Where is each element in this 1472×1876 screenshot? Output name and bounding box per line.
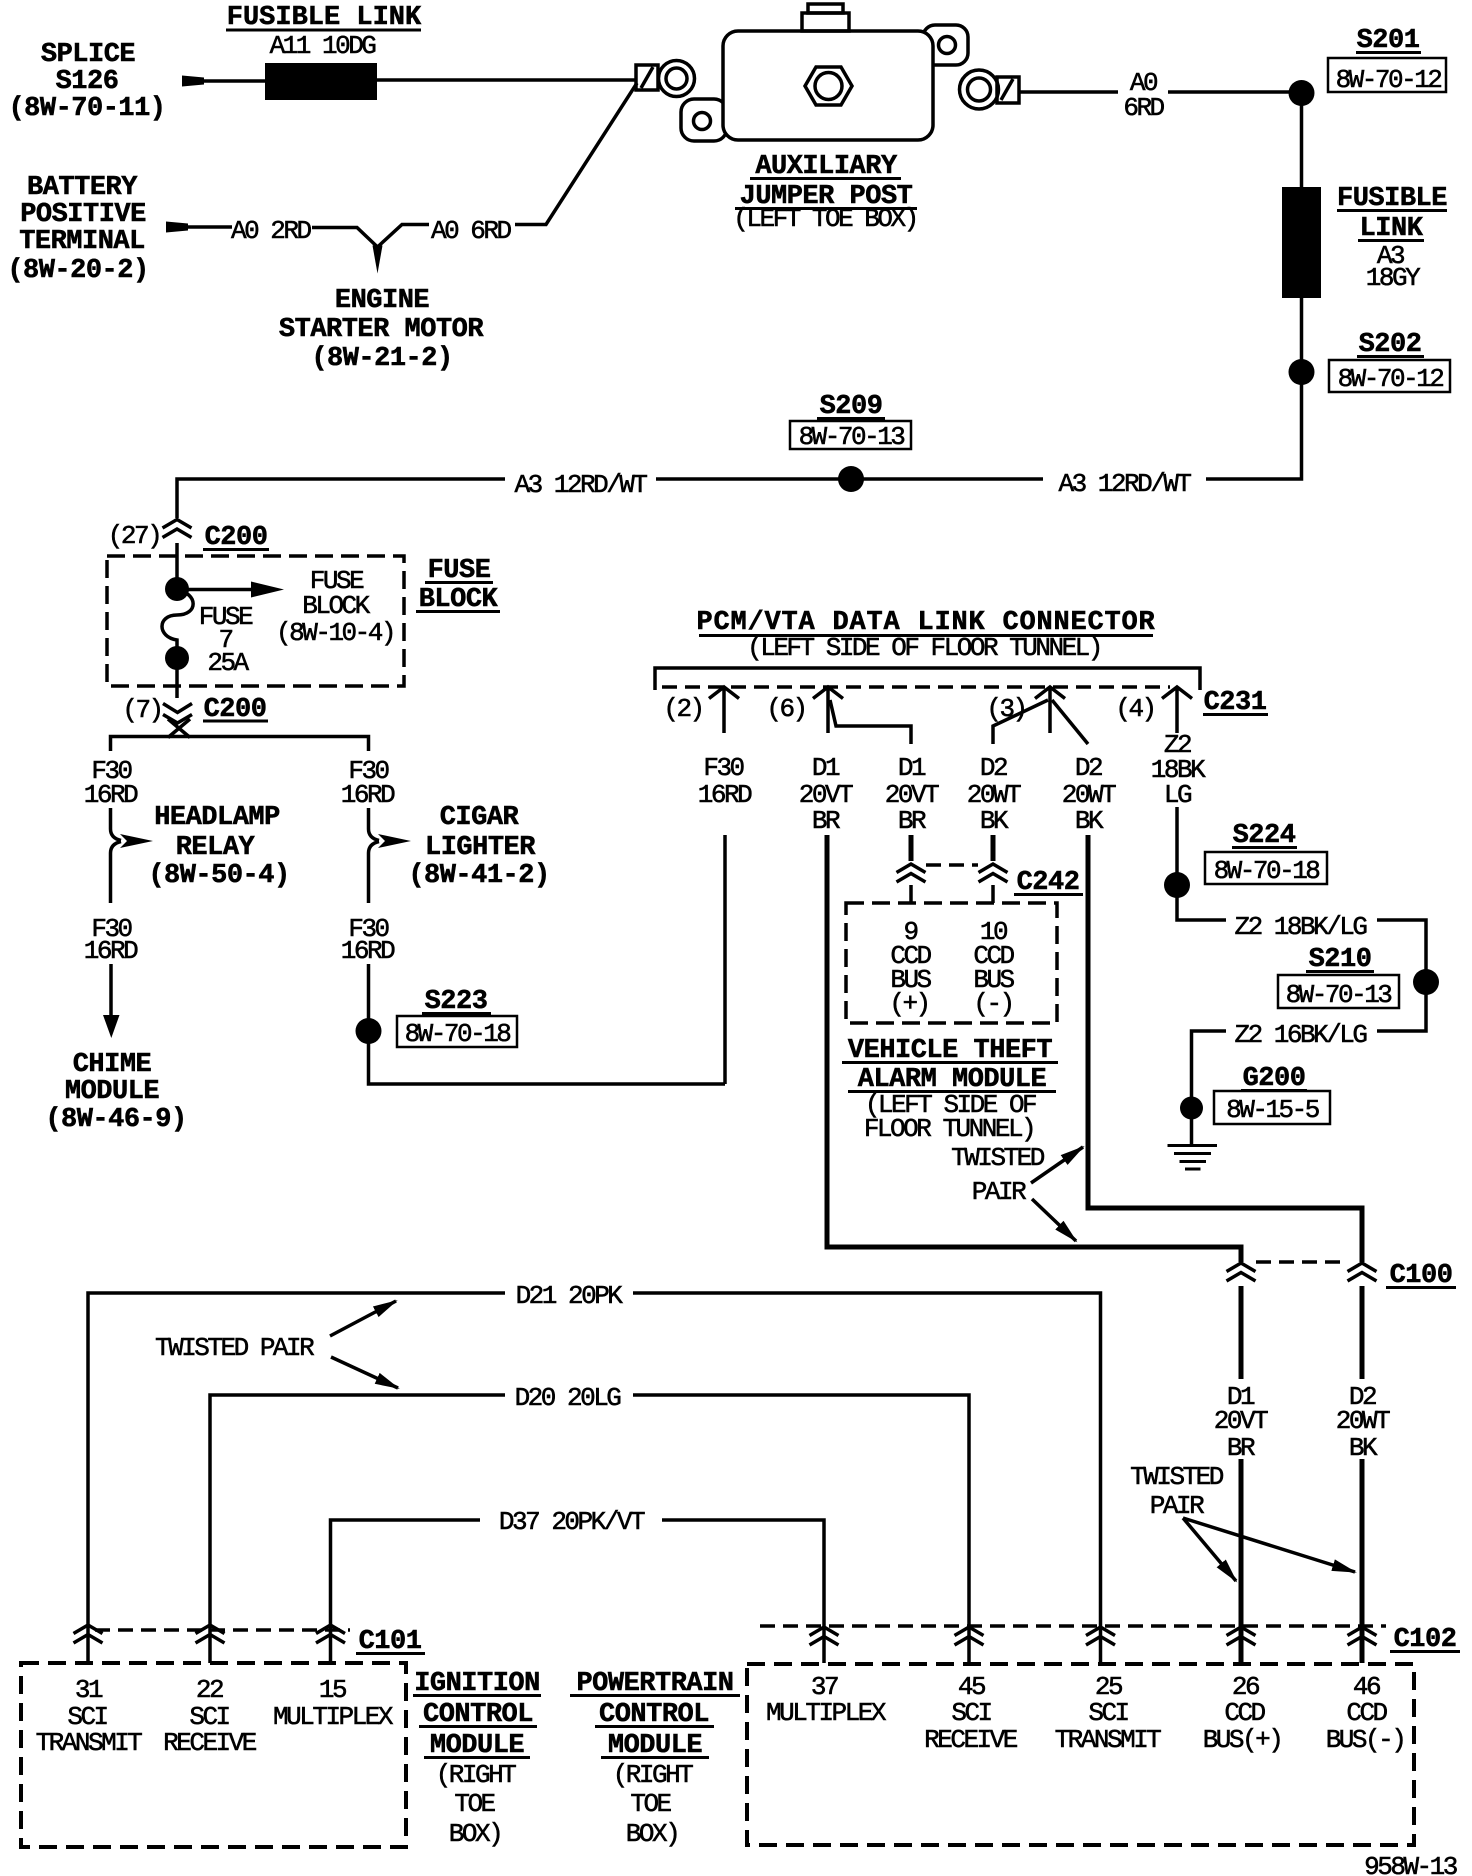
ground G200 — [1168, 1146, 1218, 1170]
label pin 37 MULTIPLEX — [766, 1672, 887, 1728]
label CIGAR LIGHTER (8W-41-2) — [408, 803, 549, 891]
label FUSE BLOCK (8W-10-4) inside — [276, 566, 394, 648]
auxiliary jumper post right tab — [923, 25, 968, 65]
label S224 8W-70-18 — [1205, 821, 1327, 886]
svg-text:S126: S126 — [56, 67, 119, 97]
svg-text:D20 20LG: D20 20LG — [515, 1383, 621, 1413]
svg-text:(-): (-) — [973, 989, 1012, 1019]
connector C242 dashed line — [926, 863, 978, 867]
label IGNITION CONTROL MODULE — [413, 1669, 541, 1849]
svg-text:LIGHTER: LIGHTER — [425, 833, 536, 863]
svg-text:(8W-46-9): (8W-46-9) — [45, 1105, 186, 1135]
svg-text:BATTERY: BATTERY — [27, 173, 138, 203]
svg-text:(7): (7) — [122, 695, 161, 725]
terminal flag left — [636, 65, 658, 90]
label C231 — [1203, 688, 1268, 718]
label FUSE 7 25A — [199, 602, 253, 678]
svg-text:TOE: TOE — [454, 1789, 495, 1819]
wire A3 12RD/WT middle run — [656, 477, 1043, 481]
label A0 6RD vertical pair — [1123, 68, 1164, 123]
wire D1 second to C242 — [909, 835, 914, 861]
splice S224 — [1164, 872, 1190, 898]
svg-text:BOX): BOX) — [449, 1819, 501, 1849]
arrow twisted pair to D2 lower — [1183, 1518, 1355, 1572]
svg-text:TWISTED: TWISTED — [1130, 1462, 1224, 1492]
wire Z2 18BK/LG run — [1177, 885, 1426, 982]
svg-text:(8W-10-4): (8W-10-4) — [276, 618, 394, 648]
svg-text:(8W-21-2): (8W-21-2) — [311, 344, 452, 374]
label FUSIBLE LINK title — [226, 3, 422, 33]
svg-text:BLOCK: BLOCK — [302, 591, 370, 621]
svg-text:Z2 16BK/LG: Z2 16BK/LG — [1234, 1020, 1366, 1050]
wire fusible link to ring terminal — [377, 78, 637, 82]
svg-text:BK: BK — [980, 806, 1009, 836]
wire battery to A0 2RD — [185, 225, 232, 229]
fusible link A11 10DG — [265, 63, 377, 100]
wire F30 pin2 down — [723, 835, 727, 1084]
wire split bracket to branches — [111, 737, 369, 752]
connector C101 dashed line — [95, 1628, 350, 1632]
svg-text:BUS(-): BUS(-) — [1326, 1725, 1405, 1755]
arrow twisted pair to D1 bus — [1032, 1199, 1076, 1241]
connector C231 bracket — [655, 668, 1200, 690]
label pin 45 SCI RECEIVE — [924, 1672, 1018, 1755]
svg-text:(27): (27) — [108, 521, 160, 551]
connector C102 chevron pin 37 — [810, 1627, 839, 1645]
label pin 46 CCD BUS(-) — [1326, 1672, 1405, 1755]
svg-text:25A: 25A — [207, 648, 249, 678]
wire D2 bus from pin 3 to C100 — [1088, 835, 1362, 1262]
svg-text:D1: D1 — [898, 753, 926, 783]
svg-text:(4): (4) — [1115, 694, 1154, 724]
svg-text:CCD: CCD — [1346, 1698, 1387, 1728]
auxiliary jumper post hex nut — [805, 67, 852, 105]
wire cigar branch to splice S223 and over to C231 pin 2 — [369, 964, 726, 1084]
label S209 8W-70-13 — [790, 392, 911, 452]
fuse block dashed box — [107, 556, 404, 686]
wire A0 6RD to splice S201 — [1019, 90, 1295, 94]
splice S201 — [1289, 80, 1315, 106]
node fuse 7 top junction — [165, 577, 189, 601]
svg-text:8W-70-13: 8W-70-13 — [1286, 980, 1392, 1010]
svg-text:D1: D1 — [812, 753, 840, 783]
svg-text:BR: BR — [898, 806, 926, 836]
label S223 8W-70-18 — [397, 987, 517, 1049]
connector C231 dashed line — [662, 685, 1170, 689]
powertrain control module dashed box — [747, 1664, 1414, 1845]
pin 3 arrow C231 — [1035, 687, 1065, 733]
label VEHICLE THEFT ALARM MODULE — [842, 1036, 1058, 1144]
label D2 20WT BK lower — [1336, 1382, 1390, 1463]
svg-text:D2: D2 — [1075, 753, 1102, 783]
wire D21 20PK run left — [88, 1293, 505, 1663]
label S202 8W-70-12 — [1329, 330, 1450, 394]
wire fusible link A3 to splice S202 — [1300, 298, 1304, 372]
wire D20 20LG run left — [210, 1395, 505, 1663]
svg-text:F30: F30 — [703, 753, 743, 783]
arrow to engine starter motor — [373, 246, 383, 274]
ring terminal right — [960, 70, 999, 109]
svg-text:16RD: 16RD — [341, 780, 395, 810]
svg-text:8W-70-13: 8W-70-13 — [799, 422, 905, 452]
svg-text:TERMINAL: TERMINAL — [19, 227, 145, 257]
svg-text:TRANSMIT: TRANSMIT — [1055, 1725, 1162, 1755]
svg-text:A3 12RD/WT: A3 12RD/WT — [1058, 469, 1191, 499]
svg-text:A11 10DG: A11 10DG — [270, 31, 376, 61]
svg-text:16RD: 16RD — [341, 936, 395, 966]
svg-text:16RD: 16RD — [698, 780, 752, 810]
svg-text:PAIR: PAIR — [1150, 1491, 1204, 1521]
auxiliary jumper post left tab — [681, 99, 727, 141]
svg-text:6RD: 6RD — [1123, 93, 1164, 123]
label pin 10 CCD BUS (-) — [973, 917, 1014, 1019]
wire A0 6RD diagonal to jumper post terminal — [515, 83, 637, 225]
svg-text:CHIME: CHIME — [73, 1050, 152, 1080]
connector C101 chevron pin 22 — [196, 1625, 225, 1643]
connector C100 chevron right — [1348, 1263, 1377, 1281]
svg-text:HEADLAMP: HEADLAMP — [154, 803, 280, 833]
splice S210 — [1413, 969, 1439, 995]
connector C100 chevron left — [1227, 1263, 1256, 1281]
label SPLICE S126 — [8, 40, 165, 124]
connector C102 chevron pin 45 — [955, 1627, 984, 1645]
auxiliary jumper post body — [723, 31, 933, 140]
svg-text:8W-15-5: 8W-15-5 — [1226, 1095, 1319, 1125]
svg-text:22: 22 — [196, 1675, 223, 1705]
label D2 20WT BK first — [967, 753, 1021, 836]
wire C200 to fuse 7 — [175, 543, 179, 592]
wire S201 to fusible link A3 — [1300, 93, 1304, 190]
wire pin 6 branch to second D1 — [830, 700, 911, 744]
svg-text:31: 31 — [75, 1675, 103, 1705]
svg-text:SCI: SCI — [951, 1698, 991, 1728]
label FUSIBLE LINK A3 18GY — [1337, 184, 1447, 293]
connector C242 chevron left — [897, 864, 926, 882]
label POWERTRAIN CONTROL MODULE — [570, 1669, 740, 1849]
svg-text:D2: D2 — [980, 753, 1007, 783]
svg-text:MODULE: MODULE — [65, 1077, 160, 1107]
wire D37 20PK/VT run left — [331, 1520, 481, 1663]
label HEADLAMP RELAY (8W-50-4) — [148, 803, 289, 891]
svg-text:TOE: TOE — [630, 1789, 671, 1819]
svg-text:A3 12RD/WT: A3 12RD/WT — [514, 470, 647, 500]
svg-text:8W-70-18: 8W-70-18 — [1214, 856, 1320, 886]
connector C200 cavity 7 — [163, 704, 192, 724]
label TWISTED PAIR upper — [951, 1143, 1045, 1207]
svg-text:(8W-20-2): (8W-20-2) — [7, 256, 148, 286]
svg-text:(8W-70-11): (8W-70-11) — [8, 94, 165, 124]
wire C242 stubs into module — [911, 885, 993, 903]
label C200 bottom — [203, 695, 268, 725]
splice S202 — [1289, 359, 1315, 385]
svg-text:20WT: 20WT — [1336, 1406, 1390, 1436]
svg-text:MULTIPLEX: MULTIPLEX — [273, 1702, 394, 1732]
svg-text:STARTER MOTOR: STARTER MOTOR — [279, 315, 484, 345]
connector C102 chevron pin 25 — [1086, 1627, 1115, 1645]
connector C242 chevron right — [979, 864, 1008, 882]
label C100 — [1386, 1261, 1456, 1291]
label G200 8W-15-5 — [1214, 1064, 1330, 1125]
wire A3 12RD/WT left run — [177, 479, 505, 518]
ring terminal left — [659, 61, 695, 97]
node fuse 7 bottom junction — [165, 646, 189, 670]
svg-text:BUS(+): BUS(+) — [1203, 1725, 1282, 1755]
wire A0 2RD to starter split — [312, 228, 378, 248]
wire A0 6RD to starter split — [378, 225, 430, 248]
wire cigar branch with tap arrow — [369, 808, 412, 903]
pin 4 arrow C231 — [1162, 687, 1192, 733]
connector C101 chevron pin 31 — [74, 1625, 103, 1643]
arrow twisted pair to D1 lower — [1183, 1518, 1236, 1581]
svg-text:BK: BK — [1349, 1433, 1378, 1463]
svg-text:TWISTED PAIR: TWISTED PAIR — [155, 1333, 314, 1363]
wire S202 down to A3 12RD/WT run — [1206, 372, 1302, 479]
svg-text:POSITIVE: POSITIVE — [20, 200, 146, 230]
svg-text:958W-13: 958W-13 — [1364, 1852, 1457, 1876]
arrow twisted pair to D21 — [330, 1301, 396, 1336]
wire split crossover below C200 — [168, 719, 190, 738]
svg-text:D21 20PK: D21 20PK — [516, 1281, 624, 1311]
svg-text:TWISTED: TWISTED — [951, 1143, 1045, 1173]
connector C102 dashed line — [760, 1624, 1386, 1628]
wire S126 to fusible link A11 — [200, 79, 266, 83]
wire Z2 to splice S224 — [1175, 807, 1179, 885]
svg-text:8W-70-18: 8W-70-18 — [405, 1019, 511, 1049]
svg-text:MULTIPLEX: MULTIPLEX — [766, 1698, 887, 1728]
pin 6 arrow C231 — [813, 687, 843, 733]
svg-text:SCI: SCI — [1088, 1698, 1128, 1728]
label ENGINE STARTER MOTOR — [279, 286, 484, 374]
svg-text:BR: BR — [812, 806, 840, 836]
label CHIME MODULE (8W-46-9) — [45, 1050, 186, 1135]
label PCM/VTA DATA LINK CONNECTOR — [696, 608, 1155, 663]
label C102 — [1390, 1625, 1460, 1655]
splice S209 — [838, 466, 864, 492]
wire and arrow to chime module — [103, 964, 120, 1038]
connector C102 chevron pin 26 — [1227, 1627, 1256, 1645]
wire Z2 16BK/LG run — [1192, 982, 1427, 1112]
svg-text:(8W-41-2): (8W-41-2) — [408, 861, 549, 891]
wire D1 bus C100 to C102 — [1239, 1286, 1244, 1663]
svg-text:16RD: 16RD — [84, 936, 138, 966]
connector C100 dashed line — [1256, 1260, 1348, 1264]
wire to ground — [1190, 1112, 1194, 1145]
svg-text:(2): (2) — [663, 694, 702, 724]
label D1 20VT BR first — [799, 753, 853, 836]
label C101 — [356, 1627, 425, 1657]
svg-text:Z2 18BK/LG: Z2 18BK/LG — [1234, 912, 1366, 942]
label S210 8W-70-13 — [1278, 945, 1399, 1010]
svg-text:BR: BR — [1227, 1433, 1255, 1463]
label D1 20VT BR lower — [1214, 1382, 1268, 1463]
label D1 20VT BR second — [885, 753, 939, 836]
label FUSE BLOCK right — [416, 556, 500, 615]
connector C102 chevron pin 46 — [1348, 1627, 1377, 1645]
wire headlamp branch with tap arrow — [111, 808, 154, 903]
svg-text:RECEIVE: RECEIVE — [163, 1728, 257, 1758]
connector C200 cavity 27 — [163, 520, 192, 538]
wire D37 20PK/VT run right — [662, 1520, 824, 1663]
pin 2 arrow C231 — [709, 687, 739, 733]
label F30 16RD cigar branch top — [341, 756, 395, 810]
label S201 8W-70-12 — [1328, 26, 1446, 95]
svg-text:LG: LG — [1164, 780, 1191, 810]
svg-text:16RD: 16RD — [84, 780, 138, 810]
label D2 20WT BK second — [1062, 753, 1116, 836]
label F30 16RD chime branch — [84, 914, 138, 966]
arrow to fuse block — [177, 582, 284, 598]
label BATTERY POSITIVE TERMINAL — [7, 173, 148, 286]
svg-text:A0 6RD: A0 6RD — [431, 216, 512, 246]
label F30 16RD pin 2 — [698, 753, 752, 810]
ignition control module dashed box — [21, 1663, 406, 1847]
svg-text:RELAY: RELAY — [176, 833, 256, 863]
svg-text:(LEFT SIDE OF FLOOR TUNNEL): (LEFT SIDE OF FLOOR TUNNEL) — [747, 633, 1101, 663]
svg-text:A0 2RD: A0 2RD — [231, 216, 312, 246]
svg-text:(8W-50-4): (8W-50-4) — [148, 861, 289, 891]
svg-text:18GY: 18GY — [1366, 263, 1421, 293]
svg-text:CIGAR: CIGAR — [440, 803, 520, 833]
terminal flag right — [997, 77, 1019, 103]
label pin 25 SCI TRANSMIT — [1055, 1672, 1162, 1755]
label TWISTED PAIR lower right — [1130, 1462, 1224, 1521]
wire D1 bus from pin 6 to C100 — [827, 835, 1241, 1262]
svg-text:CCD: CCD — [1224, 1698, 1265, 1728]
svg-text:(RIGHT: (RIGHT — [613, 1760, 694, 1790]
svg-text:SPLICE: SPLICE — [41, 40, 136, 70]
svg-text:(+): (+) — [889, 989, 928, 1019]
label C200 top — [203, 523, 269, 553]
arrow twisted pair to D20 — [331, 1357, 398, 1388]
svg-text:TRANSMIT: TRANSMIT — [36, 1728, 143, 1758]
svg-text:PAIR: PAIR — [972, 1177, 1026, 1207]
svg-text:ENGINE: ENGINE — [335, 286, 430, 316]
svg-text:FLOOR TUNNEL): FLOOR TUNNEL) — [864, 1114, 1034, 1144]
svg-text:(LEFT TOE BOX): (LEFT TOE BOX) — [733, 204, 916, 234]
svg-text:D37 20PK/VT: D37 20PK/VT — [499, 1507, 645, 1537]
node G200 junction — [1180, 1097, 1203, 1120]
fuse 7 element — [162, 590, 193, 655]
svg-text:(RIGHT: (RIGHT — [436, 1760, 517, 1790]
wire fuse 7 to C200 cavity 7 — [175, 658, 179, 698]
label F30 16RD cigar lower — [341, 914, 395, 966]
splice S223 — [356, 1018, 382, 1044]
connector C101 chevron pin 15 — [316, 1625, 345, 1643]
wire D20 20LG run right — [633, 1395, 969, 1663]
arrow to splice S126 — [182, 76, 204, 87]
svg-text:BK: BK — [1075, 806, 1104, 836]
label C242 — [1014, 868, 1083, 898]
svg-text:8W-70-12: 8W-70-12 — [1336, 65, 1442, 95]
svg-text:BOX): BOX) — [626, 1819, 678, 1849]
label pin 26 CCD BUS(+) — [1203, 1672, 1282, 1755]
auxiliary jumper post top tab — [802, 4, 849, 31]
wire pin 3 branch to first D2 — [993, 700, 1048, 744]
arrow twisted pair to D2 bus — [1031, 1147, 1083, 1183]
svg-text:20VT: 20VT — [1214, 1406, 1268, 1436]
label pin 9 CCD BUS (+) — [889, 917, 931, 1019]
wire pin 3 branch to second D2 — [1052, 700, 1088, 744]
label F30 16RD headlamp branch top — [84, 756, 138, 810]
arrow to battery positive terminal — [166, 222, 188, 233]
svg-text:15: 15 — [319, 1675, 346, 1705]
svg-text:8W-70-12: 8W-70-12 — [1338, 364, 1444, 394]
wire D2 first to C242 — [991, 835, 996, 861]
label pin 22 SCI RECEIVE — [163, 1675, 257, 1758]
wire D21 20PK run right — [633, 1293, 1101, 1663]
svg-text:(6): (6) — [766, 694, 805, 724]
svg-text:RECEIVE: RECEIVE — [924, 1725, 1018, 1755]
fusible link A3 18GY — [1282, 187, 1321, 298]
wire D2 bus C100 to C102 — [1360, 1286, 1365, 1663]
label pin 15 MULTIPLEX — [273, 1675, 394, 1732]
label AUXILIARY JUMPER POST — [733, 152, 917, 234]
label pin 31 SCI TRANSMIT — [36, 1675, 143, 1758]
vehicle theft alarm module dashed box — [846, 903, 1057, 1023]
label Z2 18BK LG — [1151, 730, 1206, 810]
